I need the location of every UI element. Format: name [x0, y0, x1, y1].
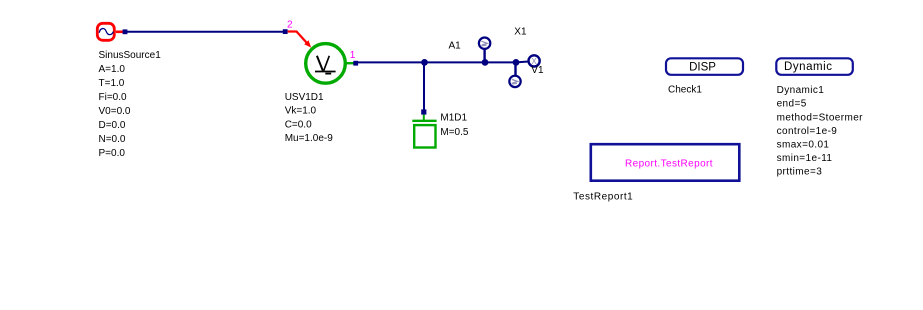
wire: [358, 61, 425, 63]
wire: [127, 31, 284, 33]
wire: [425, 61, 486, 63]
voltage source USV1D1: [306, 44, 346, 84]
node 2: [283, 29, 288, 34]
svg-text:V0=0.0: V0=0.0: [99, 106, 131, 117]
svg-text:C=0.0: C=0.0: [285, 119, 312, 130]
svg-text:Fi=0.0: Fi=0.0: [99, 92, 128, 103]
wire: [516, 61, 529, 64]
junction (top sensor): [482, 59, 489, 66]
svg-text:Check1: Check1: [668, 84, 702, 95]
svg-text:TestReport1: TestReport1: [573, 191, 633, 202]
svg-text:A1: A1: [449, 40, 462, 51]
svg-text:prttime=3: prttime=3: [777, 167, 823, 178]
connector X1 / V1: [529, 55, 540, 66]
svg-text:smin=1e-11: smin=1e-11: [777, 153, 833, 164]
wire: [485, 61, 516, 63]
junction (bottom sensor): [513, 59, 520, 66]
report block Report.TestReport: [591, 144, 740, 181]
svg-text:V1: V1: [531, 65, 544, 76]
node 1: [353, 61, 358, 66]
svg-text:method=Stoermer: method=Stoermer: [777, 112, 864, 123]
source SinusSource1: [97, 23, 123, 40]
svg-text:A=1.0: A=1.0: [99, 64, 126, 75]
node (source output pin): [123, 29, 128, 34]
connection arrow: [288, 32, 312, 48]
svg-text:Mu=1.0e-9: Mu=1.0e-9: [285, 133, 334, 144]
svg-text:Vk=1.0: Vk=1.0: [285, 106, 317, 117]
sensor connector bottom: [509, 62, 520, 87]
simulation settings block Dynamic: [776, 58, 853, 75]
svg-text:N=0.0: N=0.0: [99, 134, 126, 145]
svg-text:SinusSource1: SinusSource1: [99, 50, 162, 61]
sensor connector top: [479, 38, 490, 63]
svg-text:USV1D1: USV1D1: [285, 92, 324, 103]
display element DISP (Check1): [666, 58, 743, 75]
junction A1: [421, 59, 428, 66]
svg-text:M=0.5: M=0.5: [440, 127, 469, 138]
svg-text:M1D1: M1D1: [440, 113, 467, 124]
svg-text:P=0.0: P=0.0: [99, 148, 126, 159]
wire: [423, 62, 425, 110]
svg-text:2: 2: [287, 19, 293, 30]
mass M1D1: [412, 115, 436, 148]
svg-text:Report.TestReport: Report.TestReport: [625, 159, 713, 170]
svg-text:control=1e-9: control=1e-9: [777, 126, 838, 137]
svg-text:X1: X1: [514, 27, 527, 38]
svg-text:end=5: end=5: [777, 99, 807, 110]
pin 1 stub: [346, 62, 354, 64]
svg-text:T=1.0: T=1.0: [99, 78, 125, 89]
svg-text:Dynamic: Dynamic: [784, 61, 833, 73]
svg-text:smax=0.01: smax=0.01: [777, 140, 830, 151]
svg-text:1: 1: [350, 50, 356, 61]
svg-text:D=0.0: D=0.0: [99, 120, 126, 131]
svg-text:Dynamic1: Dynamic1: [777, 85, 825, 96]
svg-text:DISP: DISP: [689, 61, 716, 73]
node (M1D1 pin): [421, 109, 426, 114]
